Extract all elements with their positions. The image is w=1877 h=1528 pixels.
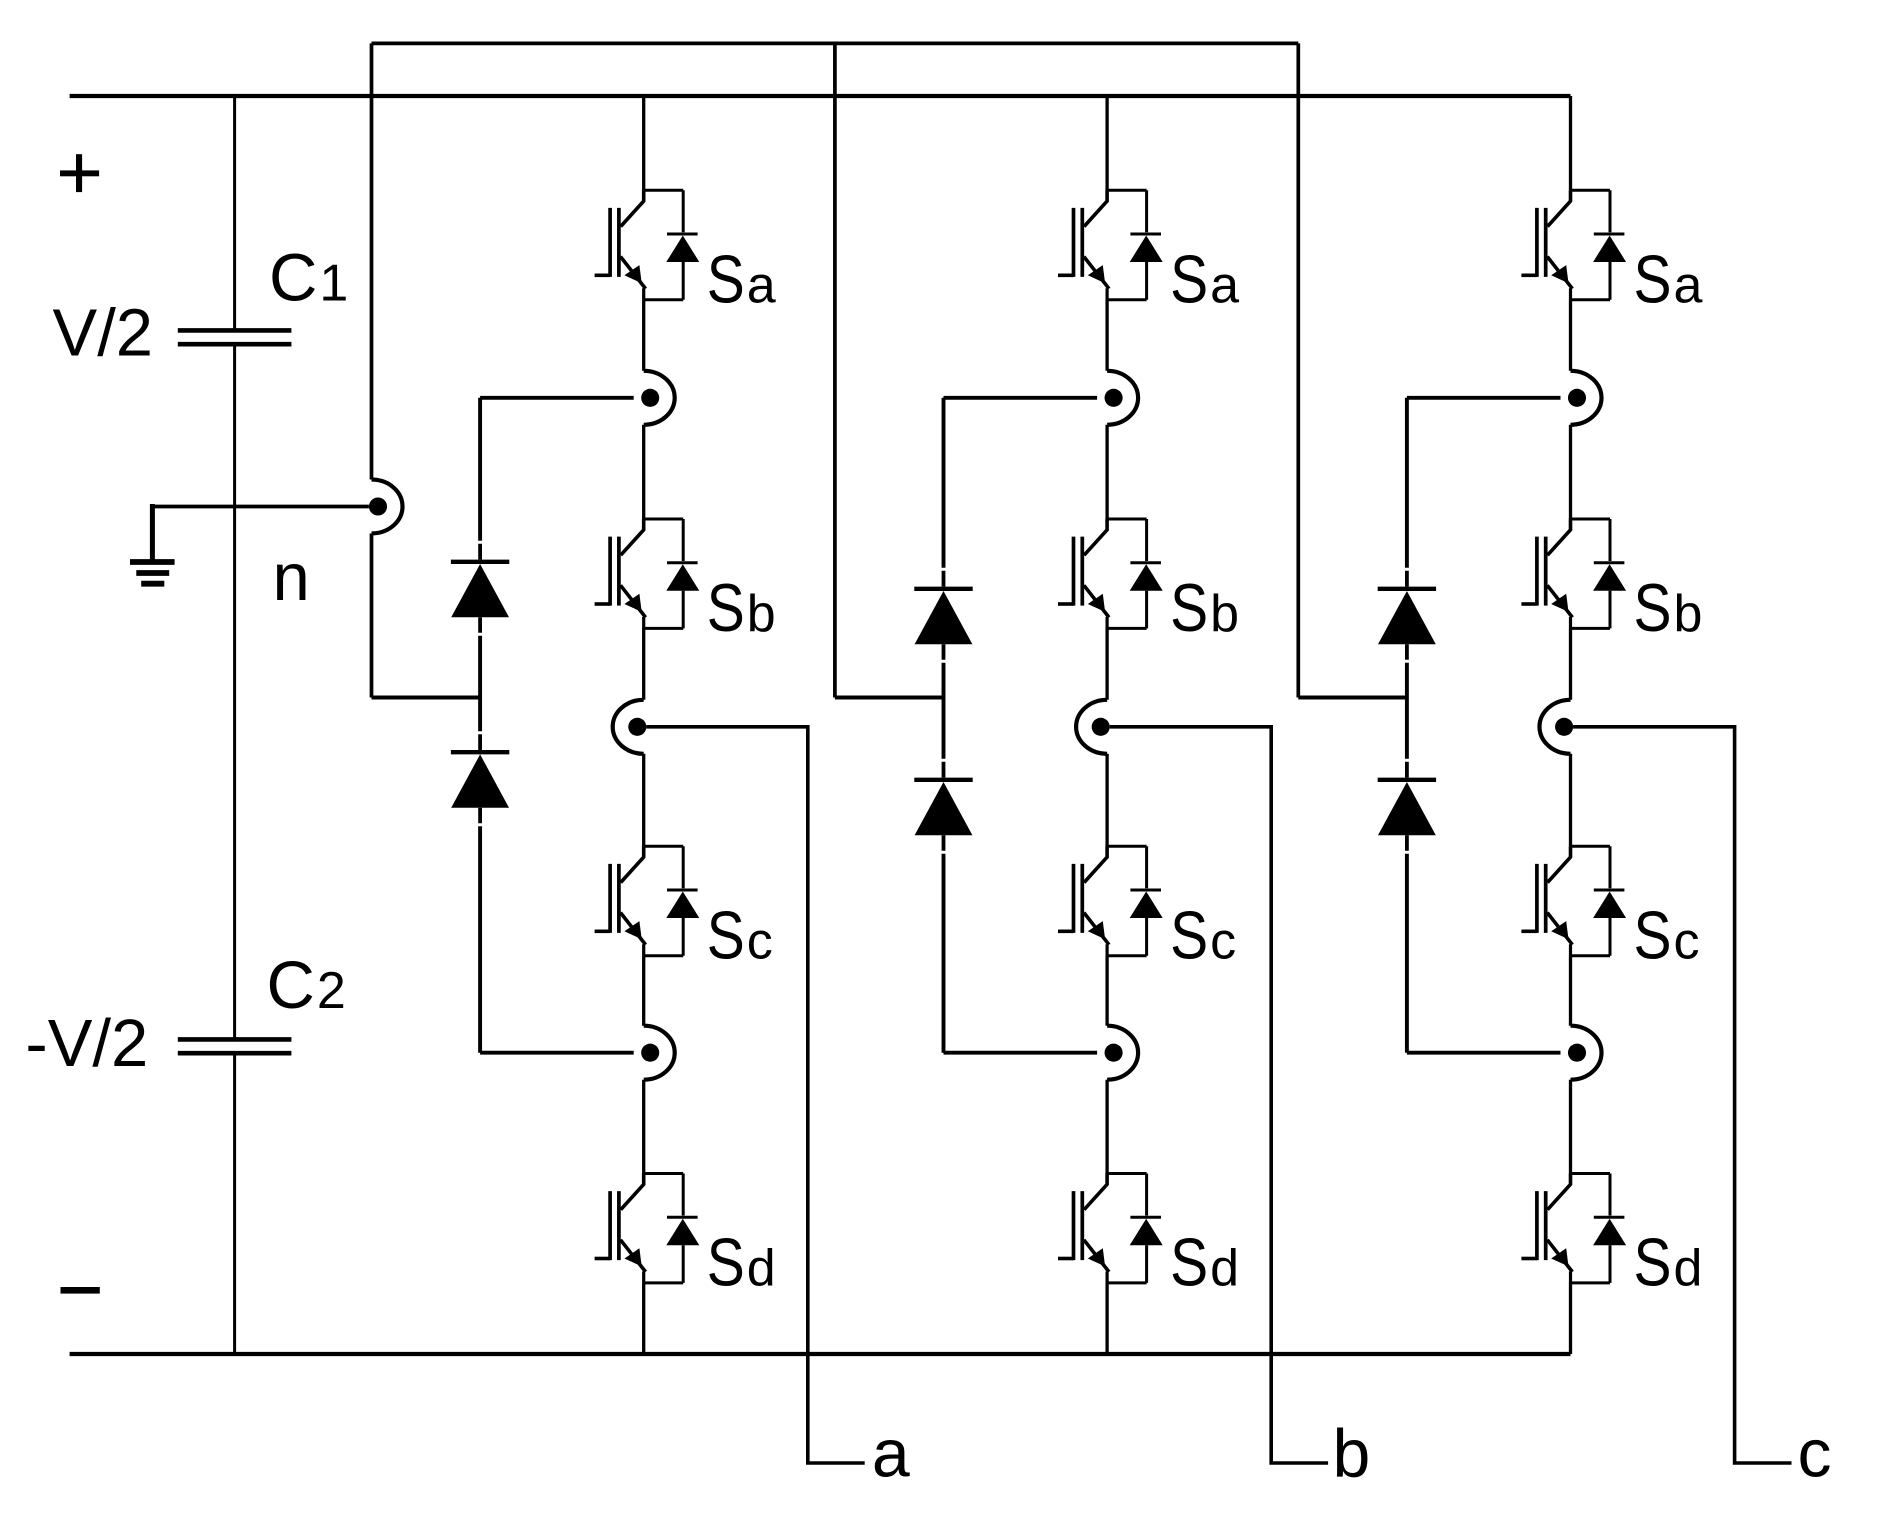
svg-text:V/2: V/2 [53, 296, 154, 371]
svg-text:b: b [1333, 1416, 1371, 1492]
svg-text:c: c [1798, 1416, 1832, 1492]
svg-text:n: n [273, 540, 310, 615]
svg-text:a: a [872, 1416, 910, 1492]
svg-text:-V/2: -V/2 [25, 1006, 148, 1081]
